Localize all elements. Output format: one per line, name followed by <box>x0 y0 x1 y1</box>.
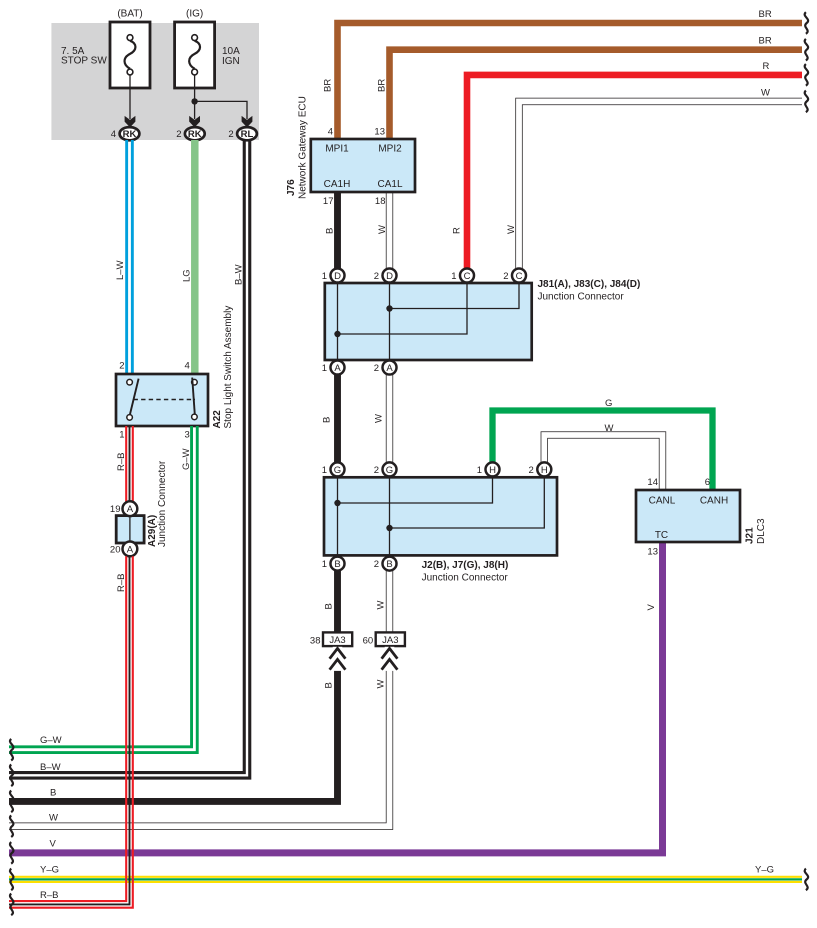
svg-text:4: 4 <box>111 129 116 140</box>
svg-text:D: D <box>334 271 341 282</box>
svg-text:1: 1 <box>322 271 327 282</box>
svg-text:(BAT): (BAT) <box>117 9 142 20</box>
wire LG green vertical <box>182 140 195 374</box>
wire W white from JA3 down to left edge <box>9 571 393 830</box>
svg-text:RK: RK <box>188 129 202 140</box>
svg-text:H: H <box>541 465 548 476</box>
svg-text:R–B: R–B <box>116 574 127 592</box>
svg-text:W: W <box>376 680 387 689</box>
stop light switch assembly A22 <box>116 306 234 441</box>
switch lever left <box>130 379 139 415</box>
svg-text:1: 1 <box>322 559 327 570</box>
svg-text:R–B: R–B <box>40 890 58 901</box>
wire W white CA1L to D2 <box>377 192 393 269</box>
wire break squiggle R-B left <box>10 894 13 916</box>
svg-text:2: 2 <box>374 271 379 282</box>
wire R-B red-black from A29 down to left edge <box>9 556 133 908</box>
svg-text:R: R <box>452 227 463 234</box>
svg-text:1: 1 <box>477 465 482 476</box>
wire W white A2 to G2 <box>374 375 393 463</box>
svg-text:D: D <box>386 271 393 282</box>
wire fuse F1 to connector RK <box>125 75 136 128</box>
mechanical link dashed <box>134 399 196 401</box>
svg-text:W: W <box>376 601 387 610</box>
node H1 <box>477 462 500 476</box>
svg-text:(IG): (IG) <box>186 9 203 20</box>
wire B-W black-white from RL down to left edge <box>9 140 250 778</box>
wire break squiggle W left <box>10 815 13 837</box>
svg-text:Stop Light Switch Assembly: Stop Light Switch Assembly <box>223 306 234 429</box>
svg-text:19: 19 <box>110 504 121 515</box>
connector JA3 pin 38 <box>310 632 352 646</box>
svg-text:G: G <box>605 398 612 409</box>
fuse F2 10A IGN (IG) <box>175 9 241 89</box>
node C2 <box>503 269 526 283</box>
svg-text:W: W <box>506 225 517 234</box>
svg-text:H: H <box>489 465 496 476</box>
shield chevrons below JA3 38 <box>330 647 346 671</box>
svg-text:J21: J21 <box>745 527 756 544</box>
svg-text:B: B <box>322 417 333 423</box>
node D1 <box>322 269 345 283</box>
connector JA3 pin 60 <box>363 632 405 646</box>
svg-text:V: V <box>50 839 57 850</box>
svg-text:BR: BR <box>759 36 772 47</box>
wire L-W blue-white vertical <box>115 140 132 374</box>
svg-text:W: W <box>49 813 58 824</box>
wire BR brown from MPI2 to right edge <box>377 36 803 139</box>
svg-text:J76: J76 <box>286 179 297 196</box>
svg-text:A: A <box>386 363 393 374</box>
svg-text:1: 1 <box>119 430 124 441</box>
connector 2 RL <box>228 127 256 140</box>
wire W white DLC3 CANL to H2 <box>541 423 666 490</box>
svg-text:C: C <box>516 271 523 282</box>
connector 4 RK <box>111 127 140 140</box>
node B2 <box>374 557 397 571</box>
svg-text:Y–G: Y–G <box>40 865 59 876</box>
svg-text:60: 60 <box>363 636 374 647</box>
svg-text:3: 3 <box>185 430 190 441</box>
svg-text:1: 1 <box>322 363 327 374</box>
svg-text:Y–G: Y–G <box>755 865 774 876</box>
svg-text:BR: BR <box>377 79 388 92</box>
svg-text:RK: RK <box>123 129 137 140</box>
svg-text:13: 13 <box>374 127 385 138</box>
svg-text:B–W: B–W <box>234 264 245 285</box>
svg-text:1: 1 <box>322 465 327 476</box>
wire break squiggle B left <box>10 791 13 813</box>
svg-text:2: 2 <box>176 129 181 140</box>
wire B black CA1H to D1 <box>325 192 338 269</box>
node H2 <box>529 462 552 476</box>
svg-text:G: G <box>334 465 341 476</box>
svg-text:B: B <box>50 788 56 799</box>
node A2 <box>374 361 397 375</box>
svg-text:2: 2 <box>228 129 233 140</box>
svg-text:B: B <box>324 682 335 688</box>
svg-text:4: 4 <box>328 127 333 138</box>
svg-text:TC: TC <box>655 530 668 541</box>
svg-text:B: B <box>325 228 336 234</box>
wire break squiggle Y-G left <box>10 869 13 891</box>
svg-text:J2(B), J7(G), J8(H): J2(B), J7(G), J8(H) <box>422 560 509 571</box>
svg-text:V: V <box>646 604 657 611</box>
svg-text:JA3: JA3 <box>382 635 398 646</box>
node C1 <box>451 269 474 283</box>
svg-text:A: A <box>127 544 134 555</box>
svg-text:R: R <box>763 61 770 72</box>
svg-text:20: 20 <box>110 544 121 555</box>
svg-text:A: A <box>334 363 341 374</box>
svg-text:JA3: JA3 <box>329 635 345 646</box>
svg-text:DLC3: DLC3 <box>756 518 767 544</box>
svg-text:R–B: R–B <box>116 453 127 471</box>
wire B thick black from JA3 down to left edge <box>9 571 338 802</box>
junction connector J2(B) J7(G) J8(H) <box>324 477 557 583</box>
svg-text:B–W: B–W <box>40 762 61 773</box>
svg-text:B: B <box>386 559 392 570</box>
svg-text:Junction Connector: Junction Connector <box>538 292 625 303</box>
wire R-B red-black from switch pin 1 to junction connector A29 <box>116 426 133 502</box>
shield chevrons below JA3 60 <box>382 647 398 671</box>
svg-text:2: 2 <box>374 559 379 570</box>
svg-text:W: W <box>377 225 388 234</box>
svg-text:BR: BR <box>323 79 334 92</box>
svg-text:CA1H: CA1H <box>324 179 351 190</box>
svg-text:W: W <box>761 88 770 99</box>
junction connector A29(A) <box>110 460 168 556</box>
wire break squiggle BR2 right <box>805 39 808 61</box>
wire break squiggle V left <box>10 842 13 864</box>
svg-text:Network Gateway ECU: Network Gateway ECU <box>298 96 309 199</box>
switch lever right <box>192 378 195 415</box>
svg-text:C: C <box>464 271 471 282</box>
svg-text:2: 2 <box>119 361 124 372</box>
wire W white from junction connector C2 to right edge <box>506 88 802 269</box>
svg-text:2: 2 <box>374 363 379 374</box>
svg-text:CANL: CANL <box>649 496 676 507</box>
junction connector J81(A) J83(C) J84(D) <box>325 279 641 360</box>
wire B black A1 to G1 <box>322 375 338 463</box>
wire break squiggle G-W left <box>10 739 13 761</box>
svg-text:2: 2 <box>374 465 379 476</box>
svg-text:W: W <box>605 423 614 434</box>
switch contact circles left <box>127 379 133 385</box>
wire Y-G yellow-green across bottom <box>9 865 802 882</box>
svg-text:B: B <box>334 559 340 570</box>
svg-text:CA1L: CA1L <box>377 179 402 190</box>
svg-text:STOP SW: STOP SW <box>61 56 107 67</box>
svg-text:38: 38 <box>310 636 321 647</box>
wire break squiggle R right <box>805 64 808 86</box>
svg-text:13: 13 <box>647 547 658 558</box>
wire break squiggle B-W left <box>10 765 13 787</box>
svg-text:J81(A), J83(C), J84(D): J81(A), J83(C), J84(D) <box>538 279 641 290</box>
svg-text:14: 14 <box>647 477 658 488</box>
svg-text:Junction Connector: Junction Connector <box>157 460 168 547</box>
svg-text:W: W <box>374 414 385 423</box>
svg-text:2: 2 <box>503 271 508 282</box>
DLC3 connector J21 <box>636 477 767 558</box>
svg-text:MPI1: MPI1 <box>325 144 349 155</box>
svg-text:CANH: CANH <box>700 496 728 507</box>
node G2 <box>374 462 397 476</box>
svg-text:RL: RL <box>241 129 254 140</box>
svg-text:B: B <box>324 603 335 609</box>
svg-text:17: 17 <box>323 196 334 207</box>
svg-text:A22: A22 <box>212 410 223 429</box>
svg-text:1: 1 <box>451 271 456 282</box>
switch contact circles right <box>192 379 198 385</box>
node B1 <box>322 557 345 571</box>
svg-text:4: 4 <box>185 361 190 372</box>
svg-text:MPI2: MPI2 <box>378 144 402 155</box>
wire R red from junction connector C1 to right edge <box>452 61 803 269</box>
svg-text:IGN: IGN <box>222 56 240 67</box>
wire break squiggle W right <box>805 91 808 113</box>
relay block shaded background <box>51 23 259 140</box>
network gateway ECU J76 <box>286 96 415 207</box>
svg-text:G–W: G–W <box>181 448 192 470</box>
wire break squiggle BR1 right <box>805 12 808 34</box>
svg-text:Junction Connector: Junction Connector <box>422 573 509 584</box>
wire G-W green-white from switch pin 3 to left edge <box>9 426 197 753</box>
svg-text:LG: LG <box>182 269 193 282</box>
svg-text:A: A <box>127 504 134 515</box>
wire fuse F2 to connector RK with branch <box>189 75 252 128</box>
node A1 <box>322 361 345 375</box>
fuse F1 7.5A STOP SW (BAT) <box>61 9 150 89</box>
svg-text:BR: BR <box>759 9 772 20</box>
node D2 <box>374 269 397 283</box>
wire V violet from DLC3 TC down to left edge <box>9 542 663 853</box>
svg-text:G: G <box>386 465 393 476</box>
wire break squiggle Y-G right <box>805 869 808 891</box>
svg-text:2: 2 <box>529 465 534 476</box>
connector 2 RK <box>176 127 204 140</box>
node G1 <box>322 462 345 476</box>
wire BR brown from MPI1 to right edge <box>323 9 803 139</box>
svg-text:18: 18 <box>375 196 386 207</box>
svg-text:6: 6 <box>705 477 710 488</box>
svg-text:G–W: G–W <box>40 735 62 746</box>
wire G green DLC3 CANH to H1 <box>493 398 713 490</box>
svg-text:L–W: L–W <box>115 260 126 280</box>
